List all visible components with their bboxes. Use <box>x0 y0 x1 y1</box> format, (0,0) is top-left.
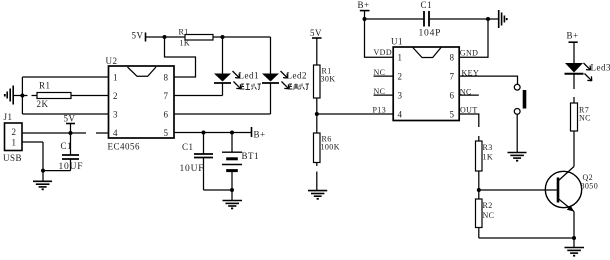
stub NC pin6 <box>459 94 479 96</box>
svg-text:Led1: Led1 <box>239 71 260 81</box>
resistor R7 NC <box>571 103 578 131</box>
ground GND3 (battery) <box>223 190 243 208</box>
wire U2 pin7 to Led1 <box>174 95 223 97</box>
label green lamp (hand-drawn CJK) <box>289 84 310 90</box>
wire OUT to R3 <box>459 114 479 141</box>
wire emitter to ground rail <box>573 212 575 239</box>
svg-text:5V: 5V <box>64 114 76 124</box>
wire to U2 pin1 <box>22 76 108 78</box>
power B+ terminal (top middle) <box>360 11 370 19</box>
wire left loop vertical <box>21 77 23 114</box>
node junction Led1 top <box>221 35 225 39</box>
svg-text:Led3: Led3 <box>591 63 610 73</box>
svg-text:1: 1 <box>398 53 403 63</box>
svg-text:Led2: Led2 <box>287 71 308 81</box>
svg-text:C1: C1 <box>182 142 194 152</box>
svg-text:B+: B+ <box>358 0 370 10</box>
power 5V terminal (middle column) <box>312 38 322 65</box>
svg-text:3: 3 <box>398 91 403 101</box>
svg-text:U2: U2 <box>106 56 118 66</box>
svg-text:8: 8 <box>164 73 169 83</box>
resistor R6 100K <box>314 114 321 191</box>
ground GND5 (top right sideways) <box>488 10 507 28</box>
power 5V terminal (top) <box>146 33 186 42</box>
svg-text:2: 2 <box>12 127 17 137</box>
ground GND1 (left sideways earth) <box>5 86 23 105</box>
svg-text:VDD: VDD <box>374 48 393 57</box>
svg-text:OUT: OUT <box>460 106 478 115</box>
battery BT1 <box>222 133 242 191</box>
node junction at USB ground <box>41 169 45 173</box>
svg-text:5: 5 <box>450 110 455 120</box>
wire U2 pin6 to Led2 <box>174 113 271 115</box>
IC U1 <box>393 47 459 121</box>
connector J1 USB <box>5 123 23 151</box>
svg-text:5V: 5V <box>310 28 322 38</box>
node junction emitter/ground <box>572 236 576 240</box>
IC U2 EC4056 <box>109 66 175 138</box>
svg-text:J1: J1 <box>4 112 13 122</box>
svg-text:6: 6 <box>450 91 455 101</box>
wire J1 pin2 to U2 pin4 <box>22 132 109 134</box>
wire P13 to U1 pin4 <box>317 113 393 115</box>
node junction R1 left <box>163 35 167 39</box>
svg-text:7: 7 <box>164 91 169 101</box>
wire J1 pin1 down to ground <box>22 142 71 171</box>
svg-text:7: 7 <box>450 72 455 82</box>
svg-text:GND: GND <box>460 49 479 58</box>
node 5V junction on J1 wire <box>69 131 73 135</box>
svg-text:C1: C1 <box>421 0 433 10</box>
node junction C1 top <box>202 131 206 135</box>
svg-text:5: 5 <box>164 128 169 138</box>
power 5V terminal (USB area) <box>66 124 75 134</box>
svg-text:6: 6 <box>164 110 169 120</box>
resistor R1 30K <box>314 65 321 114</box>
wire B+ down to VDD <box>365 19 394 57</box>
wire zigzag 5V to U2 pin8 <box>165 37 196 77</box>
resistor R2 NC <box>476 190 483 238</box>
svg-text:C1: C1 <box>61 141 73 151</box>
resistor R1 2K <box>22 93 108 99</box>
svg-text:2K: 2K <box>37 99 49 109</box>
svg-text:R2: R2 <box>483 201 493 210</box>
node A junction (left ground / R1 / loop) <box>20 94 24 98</box>
svg-text:5V: 5V <box>132 31 144 41</box>
svg-text:BT1: BT1 <box>242 151 260 161</box>
resistor R3 1K <box>476 141 483 190</box>
capacitor C1 10UF (mid) <box>194 133 232 191</box>
power B+ terminal (mid) <box>251 127 253 137</box>
resistor R1 1K <box>185 35 271 41</box>
svg-text:1: 1 <box>12 138 17 148</box>
node junction GND drop <box>486 17 490 21</box>
svg-text:2: 2 <box>398 72 403 82</box>
LED Led2 <box>262 37 289 114</box>
svg-text:1K: 1K <box>483 153 494 162</box>
svg-text:4: 4 <box>398 110 403 120</box>
svg-text:NC: NC <box>579 114 591 123</box>
svg-text:100K: 100K <box>321 143 340 152</box>
node junction BT1 bottom <box>230 188 234 192</box>
svg-text:B+: B+ <box>567 31 579 41</box>
wire to U2 pin3 <box>22 113 108 115</box>
svg-text:104P: 104P <box>419 29 442 39</box>
svg-text:B+: B+ <box>254 130 266 140</box>
wire collector <box>573 131 575 167</box>
ground GND4 (R6) <box>308 191 327 199</box>
capacitor C1 104P <box>424 11 488 27</box>
svg-text:1K: 1K <box>180 39 191 48</box>
svg-text:8: 8 <box>450 53 455 63</box>
svg-text:P13: P13 <box>373 106 387 115</box>
svg-text:R3: R3 <box>483 143 493 152</box>
switch S1 pushbutton <box>514 84 526 152</box>
svg-text:EC4056: EC4056 <box>108 142 141 152</box>
node junction P13 <box>315 112 319 116</box>
wire KEY to switch <box>459 76 517 84</box>
svg-text:U1: U1 <box>391 37 403 47</box>
power B+ terminal (top right) <box>569 42 578 63</box>
ground GND6 (switch) <box>508 153 527 161</box>
node junction BT1 top <box>230 131 234 135</box>
svg-text:R1: R1 <box>179 28 189 37</box>
transistor Q2 8050 <box>545 167 581 212</box>
capacitor C1 10UF (USB) <box>62 133 79 171</box>
svg-text:30K: 30K <box>321 75 336 84</box>
LED Led3 <box>565 63 592 103</box>
wire base <box>479 189 557 191</box>
LED Led1 <box>214 37 241 96</box>
node junction B+ <box>363 17 367 21</box>
wire gnd down to GND pin <box>459 19 488 57</box>
svg-text:10UF: 10UF <box>180 164 205 174</box>
svg-text:4: 4 <box>113 128 118 138</box>
svg-text:8050: 8050 <box>581 182 599 191</box>
node junction base <box>477 188 481 192</box>
wire B+ to C1 <box>365 18 425 20</box>
wire emitter bottom <box>479 237 574 239</box>
svg-text:1: 1 <box>113 73 118 83</box>
label red lamp (hand-drawn CJK) <box>241 84 262 90</box>
svg-text:2: 2 <box>113 91 118 101</box>
svg-text:R1: R1 <box>39 81 51 91</box>
stub NC pin2 <box>374 75 394 77</box>
ground GND2 (USB) <box>33 171 52 190</box>
wire U2 pin5 to B+ <box>174 132 252 134</box>
svg-text:3: 3 <box>113 110 118 120</box>
svg-text:NC: NC <box>483 211 495 220</box>
ground GND7 (emitter) <box>565 238 585 256</box>
stub NC pin3 <box>374 94 394 96</box>
svg-text:USB: USB <box>3 153 22 163</box>
